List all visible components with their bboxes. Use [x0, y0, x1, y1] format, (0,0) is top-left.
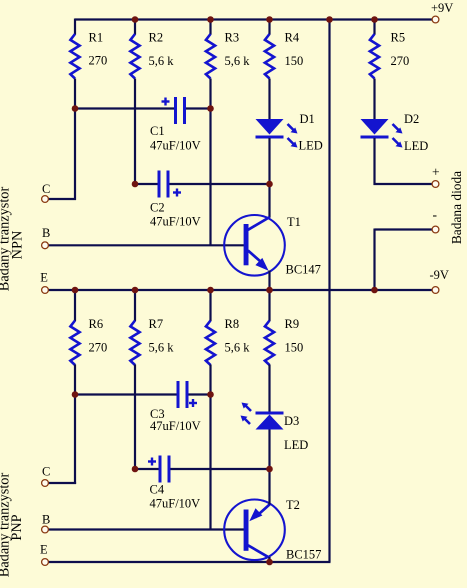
wire R5 bottom to D2 anode [373, 79, 375, 121]
wire minus terminal to -9V rail [375, 228, 433, 230]
wire R1 top lead [74, 19, 76, 35]
wire D2 cathode down [373, 138, 375, 185]
resistor R9 [265, 321, 274, 366]
wire B terminal to T1 base [48, 244, 244, 246]
svg-text:5,6 k: 5,6 k [225, 341, 251, 355]
wire R7 top lead [134, 290, 136, 321]
junction +9V rail / center vertical [326, 16, 333, 23]
junction bottom E rail / T2 collector [266, 559, 273, 566]
svg-text:E: E [40, 271, 48, 285]
svg-text:BC157: BC157 [286, 548, 321, 562]
svg-text:D3: D3 [284, 414, 299, 428]
resistor R6 [70, 321, 79, 366]
svg-text:LED: LED [404, 139, 428, 153]
capacitor C3 [75, 381, 211, 408]
svg-text:47uF/10V: 47uF/10V [150, 497, 201, 511]
svg-text:LED: LED [299, 139, 323, 153]
svg-text:47uF/10V: 47uF/10V [150, 419, 201, 433]
transistor T1 [224, 215, 285, 276]
junction node D3 / C4 right / T2 emitter [266, 466, 273, 473]
wire T2 emitter up to node [268, 469, 270, 505]
wire R7 bottom to C4 [134, 365, 136, 470]
svg-text:T1: T1 [287, 215, 301, 229]
svg-text:B: B [42, 513, 50, 527]
svg-text:PNP: PNP [9, 514, 25, 540]
LED D3 [241, 403, 284, 430]
junction +9V rail / R2 [132, 16, 139, 23]
junction -9V rail / R7 [132, 287, 139, 294]
svg-text:-: - [433, 207, 438, 222]
wire D2 to + terminal [374, 183, 433, 185]
svg-text:C: C [42, 182, 50, 196]
capacitor C1 [75, 97, 211, 124]
wire bottom E rail [48, 561, 331, 563]
wire C terminal (PNP) [48, 482, 76, 484]
wire T2 collector to bottom rail [268, 557, 270, 562]
svg-text:+: + [432, 165, 440, 180]
wire R6 top lead [74, 290, 76, 321]
svg-text:R9: R9 [285, 317, 300, 331]
transistor T2 [224, 500, 285, 561]
junction node R3 / C1 right [207, 105, 214, 112]
svg-text:C4: C4 [150, 483, 165, 497]
svg-text:C: C [42, 465, 50, 479]
junction -9V rail / R6 [72, 287, 79, 294]
svg-text:150: 150 [285, 341, 304, 355]
wire top +9V rail [75, 18, 432, 20]
wire R6 bottom to bottom C corner [74, 365, 76, 485]
junction node R2 / C2 left [132, 181, 139, 188]
junction node R1 / C1 left [72, 105, 79, 112]
svg-text:LED: LED [284, 438, 308, 452]
terminal E (NPN) [42, 287, 49, 294]
svg-text:B: B [42, 226, 50, 240]
resistor R5 [370, 34, 379, 79]
junction -9V rail / diode minus lead [371, 287, 378, 294]
junction -9V rail / T1 emitter / R9 [266, 287, 273, 294]
wire center vertical rail +9V to bottom E rail [328, 20, 330, 563]
svg-text:150: 150 [285, 54, 304, 68]
wire R4 top lead [268, 20, 270, 35]
svg-text:BC147: BC147 [286, 263, 321, 277]
wire R8 bottom down to T2 base corner [209, 365, 211, 530]
terminal B (NPN) [42, 242, 49, 249]
svg-text:R5: R5 [391, 31, 406, 45]
terminal B (PNP) [42, 526, 49, 533]
svg-text:270: 270 [89, 54, 108, 68]
terminal E (PNP) [42, 559, 49, 566]
wire R1 bottom to C terminal corner [74, 79, 76, 201]
wire R3 bottom down to base corner [209, 79, 211, 246]
wire E rail -9V [48, 289, 432, 291]
svg-text:5,6 k: 5,6 k [149, 54, 175, 68]
svg-text:T2: T2 [286, 498, 300, 512]
resistor R3 [206, 34, 215, 79]
svg-text:5,6 k: 5,6 k [149, 341, 175, 355]
svg-text:47uF/10V: 47uF/10V [150, 215, 201, 229]
junction node D1 cathode / C2 right / T1 collector [266, 181, 273, 188]
wire R4 bottom to D1 anode [268, 79, 270, 121]
wire R2 bottom to C2 [134, 79, 136, 185]
wire R9 top lead [268, 290, 270, 321]
terminal - (badana dioda) [432, 226, 439, 233]
junction node R8 / C3 right [207, 391, 214, 398]
wire D1 cathode to node [268, 138, 270, 218]
svg-text:R3: R3 [225, 31, 240, 45]
resistor R7 [130, 321, 139, 366]
capacitor C2 [135, 171, 270, 198]
junction +9V rail / R4 [266, 16, 273, 23]
svg-text:R1: R1 [89, 31, 104, 45]
svg-text:R7: R7 [149, 317, 164, 331]
resistor R8 [206, 321, 215, 366]
svg-text:E: E [40, 543, 48, 557]
wire C terminal (NPN) [48, 198, 76, 200]
resistor R4 [265, 34, 274, 79]
svg-text:-9V: -9V [430, 268, 449, 282]
svg-text:270: 270 [89, 341, 108, 355]
svg-text:D1: D1 [300, 112, 315, 126]
junction +9V rail / R5 [371, 16, 378, 23]
resistor R2 [130, 34, 139, 79]
wire R9 bottom to D3 [268, 365, 270, 413]
junction -9V rail / R8 [207, 287, 214, 294]
svg-text:R2: R2 [149, 31, 164, 45]
wire R8 top lead [209, 290, 211, 321]
LED D2 [361, 119, 403, 148]
svg-text:+9V: +9V [431, 1, 453, 15]
svg-text:NPN: NPN [10, 231, 26, 260]
svg-text:Badana dioda: Badana dioda [449, 171, 464, 244]
terminal -9V [432, 287, 439, 294]
capacitor C4 [135, 456, 270, 483]
terminal +9V [432, 16, 439, 23]
wire T1 emitter to E rail [268, 271, 270, 291]
resistor R1 [70, 34, 79, 79]
svg-text:R6: R6 [89, 317, 104, 331]
junction node R6 / C3 left [72, 391, 79, 398]
junction +9V rail / R3 [207, 16, 214, 23]
junction node R7 / C4 left [132, 466, 139, 473]
wire D3 to C4 node [268, 430, 270, 471]
LED D1 [256, 119, 298, 148]
svg-text:270: 270 [391, 54, 410, 68]
terminal C (NPN) [42, 196, 49, 203]
terminal C (PNP) [42, 480, 49, 487]
svg-text:D2: D2 [404, 112, 419, 126]
wire R5 top lead [373, 20, 375, 35]
svg-text:R8: R8 [225, 317, 240, 331]
wire B terminal to T2 base [48, 528, 244, 530]
svg-text:C2: C2 [150, 201, 165, 215]
svg-text:47uF/10V: 47uF/10V [150, 139, 201, 153]
svg-text:C1: C1 [150, 124, 165, 138]
svg-text:5,6 k: 5,6 k [225, 54, 251, 68]
wire R3 top lead [209, 20, 211, 35]
terminal + (badana dioda) [432, 181, 439, 188]
wire R2 top lead [134, 20, 136, 35]
svg-text:R4: R4 [285, 31, 300, 45]
